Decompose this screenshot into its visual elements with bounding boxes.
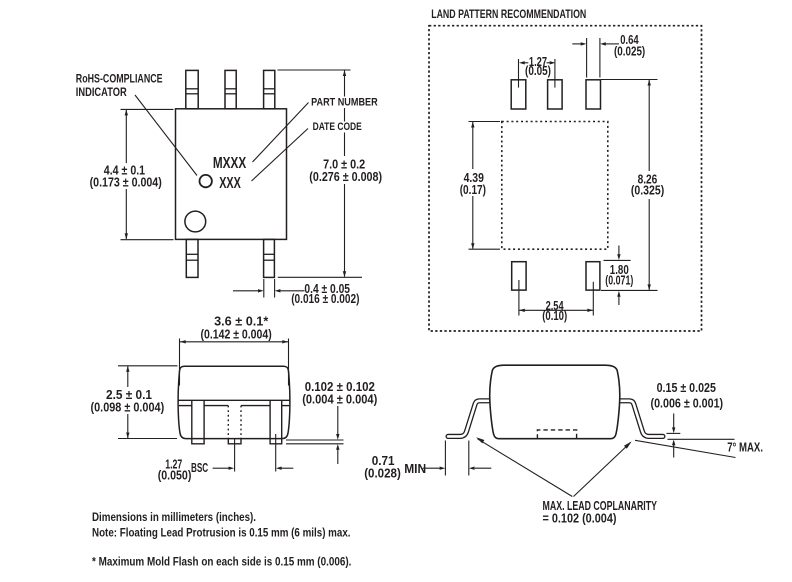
svg-text:INDICATOR: INDICATOR: [76, 87, 127, 99]
FIG1 dim 4.4 extension lines: [121, 108, 174, 110]
FIG1 dim 7.0 extension lines: [278, 69, 351, 71]
FIG2 pad C (top-right): [586, 80, 601, 109]
FIG3 dim 1.27 BSC arrow tails: [213, 467, 229, 469]
svg-text:Note: Floating Lead Protrusion: Note: Floating Lead Protrusion is 0.15 m…: [92, 526, 351, 540]
svg-text:XXX: XXX: [219, 175, 241, 192]
FIG1 RoHS indicator circle: [200, 175, 212, 187]
FIG3 dim 3.6 line: [180, 341, 288, 343]
FIG2 pad D (bottom-left): [512, 262, 526, 290]
svg-text:0.15 ± 0.025: 0.15 ± 0.025: [657, 381, 716, 395]
svg-text:Dimensions in millimeters (inc: Dimensions in millimeters (inches).: [92, 510, 256, 524]
svg-text:* Maximum Mold Flash on each s: * Maximum Mold Flash on each side is 0.1…: [92, 554, 351, 568]
FIG2 arrowheads: [519, 61, 525, 64]
FIG3 mold parting line: [178, 399, 289, 401]
svg-text:(0.10): (0.10): [542, 309, 567, 323]
FIG2 dim 1.80 top extension: [604, 259, 631, 261]
svg-text:BSC: BSC: [191, 461, 208, 475]
svg-text:(0.098 ± 0.004): (0.098 ± 0.004): [91, 401, 165, 415]
FIG4 dim 0.71 arrow tails: [423, 467, 440, 469]
FIG2 pad B (top-middle): [548, 80, 563, 109]
FIG1 dim 7.0 line: [344, 71, 346, 277]
svg-text:(0.17): (0.17): [460, 183, 486, 197]
svg-text:PART NUMBER: PART NUMBER: [311, 97, 378, 109]
FIG4 left gull-wing lead: [448, 401, 493, 437]
svg-text:MXXX: MXXX: [213, 155, 247, 172]
FIG4 arrowheads: [672, 427, 675, 433]
svg-text:RoHS-COMPLIANCE: RoHS-COMPLIANCE: [76, 73, 163, 85]
svg-text:(0.05): (0.05): [525, 64, 551, 78]
FIG3 dim 2.5 line: [127, 366, 129, 438]
svg-text:(0.028): (0.028): [364, 467, 401, 481]
svg-text:LAND PATTERN RECOMMENDATION: LAND PATTERN RECOMMENDATION: [431, 7, 586, 21]
FIG4 hidden pad dashed box: [537, 430, 576, 439]
svg-text:(0.004 ± 0.004): (0.004 ± 0.004): [302, 392, 377, 406]
FIG1 leader part number: [253, 103, 309, 163]
FIG4 dim 0.15 arrow tails: [673, 414, 675, 429]
FIG1 pin 3 (bottom-right): [264, 239, 275, 277]
FIG2 pad E (bottom-right): [586, 262, 600, 290]
FIG2 dim 2.54 line: [519, 309, 593, 311]
FIG2 pad A (top-left): [511, 80, 526, 109]
FIG3 middle foot: [228, 439, 241, 444]
FIG4 coplanarity leaders: [478, 439, 573, 497]
svg-text:(0.006 ± 0.001): (0.006 ± 0.001): [651, 396, 724, 410]
FIG3 left lead edges: [191, 400, 193, 438]
FIG2 dim 4.39 line: [472, 122, 474, 249]
FIG1 dim 4.4 line: [125, 110, 127, 239]
FIG4 foot top extension: [667, 432, 681, 434]
FIG3 hidden middle lead dotted: [227, 406, 229, 439]
FIG2 dim 0.64 arrow tails: [572, 43, 581, 45]
FIG3 text backgrounds: [88, 387, 166, 414]
svg-text:DATE CODE: DATE CODE: [313, 121, 362, 133]
FIG2 land pattern dashed border: [429, 26, 702, 331]
svg-text:(0.142 ± 0.004): (0.142 ± 0.004): [201, 327, 272, 341]
FIG1 leader RoHS: [135, 95, 197, 176]
FIG1 text backgrounds: [87, 97, 385, 190]
FIG3 dim 0.102 arrows tails: [337, 406, 339, 434]
FIG3 package body end view: [178, 366, 290, 438]
FIG4 seating plane line: [668, 438, 735, 440]
FIG4 7 degree line: [635, 440, 736, 457]
svg-text:(0.276 ± 0.008): (0.276 ± 0.008): [309, 170, 382, 184]
FIG1 arrowheads: [125, 110, 128, 116]
FIG3 right foot: [270, 439, 282, 444]
FIG3 left foot: [192, 439, 204, 444]
FIG2 dim 1.80 arrows tails: [618, 246, 620, 255]
FIG4 right gull-wing lead: [616, 401, 663, 437]
svg-text:MIN: MIN: [404, 462, 426, 476]
svg-text:(0.325): (0.325): [631, 183, 664, 197]
FIG3 dim 3.6 extension lines: [179, 339, 181, 386]
FIG1 pin 5 (top-middle): [225, 70, 236, 108]
FIG2 text backgrounds: [457, 169, 666, 199]
FIG3 dim 2.5 extension lines: [118, 365, 178, 367]
FIG2 dim 8.26 line: [648, 80, 650, 290]
FIG3 right lead edges: [269, 400, 271, 438]
svg-text:= 0.102 (0.004): = 0.102 (0.004): [543, 512, 617, 526]
FIG4 dim 0.71 extension lines: [444, 441, 446, 476]
FIG4 package body side view: [490, 365, 620, 439]
FIG3 arrowheads: [180, 340, 186, 343]
FIG3 dim 1.27 BSC extension lines: [234, 439, 236, 472]
svg-text:(0.071): (0.071): [605, 274, 633, 288]
FIG3 ledge line segments: [179, 405, 192, 407]
FIG2 dim 4.39 extension lines: [469, 121, 501, 123]
FIG2 dim 8.26 extension lines: [601, 79, 658, 81]
svg-text:(0.016 ± 0.002): (0.016 ± 0.002): [291, 292, 359, 306]
FIG1 pin 1 (bottom-left): [186, 239, 198, 277]
FIG2 dim 1.27 extension ticks: [518, 59, 520, 88]
FIG1 pin 6 (top-left): [186, 70, 198, 108]
svg-text:(0.173 ± 0.004): (0.173 ± 0.004): [90, 175, 162, 189]
svg-text:7° MAX.: 7° MAX.: [727, 440, 763, 454]
FIG1 package body top view: [176, 109, 287, 240]
FIG2 dim 1.27 arrow tails: [525, 62, 529, 64]
FIG2 dim 2.54 extension ticks: [518, 280, 520, 316]
svg-text:(0.050): (0.050): [158, 468, 192, 482]
FIG1 pin 4 (top-right): [264, 70, 275, 108]
svg-text:(0.025): (0.025): [614, 44, 645, 58]
FIG1 dim 0.4 extension lines: [263, 279, 265, 298]
FIG1 leader date code: [252, 129, 309, 182]
FIG1 dim 0.4 arrow tails: [233, 290, 258, 292]
FIG2 dim 0.64 extension lines: [586, 38, 588, 78]
FIG3 standoff reference lines: [286, 439, 344, 441]
FIG1 pin-1 dot circle: [185, 211, 206, 232]
FIG2 courtyard dotted rect: [502, 122, 608, 250]
